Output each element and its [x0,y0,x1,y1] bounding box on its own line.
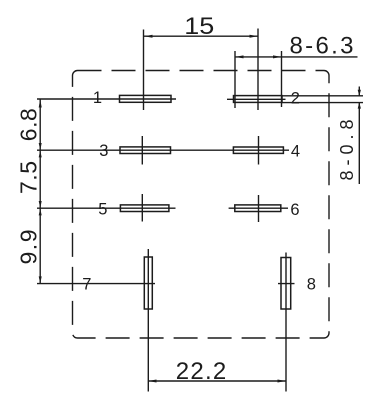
wire row 2 center line [37,149,289,151]
svg-text:6.8: 6.8 [16,108,42,141]
dimension left chain line [39,99,41,284]
wire pin 2 center line [227,98,286,100]
pin 5 center extension line [141,194,143,222]
arrow 9.9 bottom [39,276,42,283]
arrow 22.2 right [278,380,287,383]
pin 8 center extension line [285,253,287,392]
arrow 6.8 top [39,99,42,108]
svg-text:8-0.8: 8-0.8 [337,120,357,181]
pin 6 center extension line [258,195,260,222]
pin 3 center extension line [141,136,143,165]
arrow 15 left [144,35,153,38]
arrow 7.5 bottom [39,201,42,208]
pin 4 center extension line [258,136,260,165]
arrow 6.3 right [273,55,282,58]
dimension 8-0.8 extension line top [282,95,363,97]
arrow 0.8 upper [358,90,361,96]
arrow 22.2 left [148,380,157,383]
dimension 8-6.3 extension line left [234,51,236,108]
wire row 1 center line [37,98,176,100]
svg-text:3: 3 [99,142,108,160]
pin 1 pad slot [120,95,172,102]
svg-text:4: 4 [291,143,300,161]
dimension 15 line [144,35,258,37]
pin 5 pad slot [120,205,168,212]
arrow 7.5 top [39,150,42,157]
wire pin 8 center tick [278,283,295,285]
dimension 22.2 line [148,380,286,382]
arrow 15 right [250,35,259,38]
relay body dashed outline [73,71,330,339]
dimension 8-0.8 arrow line upper [358,87,360,96]
pin 6 pad slot [235,205,281,212]
svg-text:5: 5 [98,200,107,218]
svg-text:8: 8 [307,276,316,294]
pin 7 center extension line [147,249,149,392]
pin 1 center extension line [143,30,145,111]
svg-text:9.9: 9.9 [16,230,42,265]
svg-text:22.2: 22.2 [176,358,227,385]
dimension 8-0.8 extension line bottom [282,102,363,104]
pin 7 pad slot [144,257,152,309]
dimension 8-0.8 arrow line lower [358,103,360,185]
svg-text:7: 7 [82,275,91,293]
svg-text:7.5: 7.5 [16,161,42,194]
pin 3 pad slot [120,147,171,154]
wire row 7 center line [37,283,155,285]
pin 2 center extension line [257,29,259,111]
svg-text:15: 15 [184,13,214,40]
dimension 8-6.3 line with text underline [235,56,358,58]
wire row 3 left center line [37,207,176,209]
arrow 9.9 top [39,208,42,215]
svg-text:6: 6 [290,201,299,219]
svg-text:1: 1 [93,89,102,107]
arrow 6.8 bottom [39,143,42,150]
svg-text:8-6.3: 8-6.3 [290,33,354,60]
arrow 6.3 left [235,55,244,58]
dimension 8-6.3 extension line right [281,51,283,107]
wire row 3 right center line [229,207,288,209]
pin 2 pad slot [234,96,283,103]
svg-text:2: 2 [291,89,300,107]
pin 4 pad slot [233,147,283,153]
arrow 0.8 lower [358,102,361,108]
pin 8 pad slot [281,258,291,310]
